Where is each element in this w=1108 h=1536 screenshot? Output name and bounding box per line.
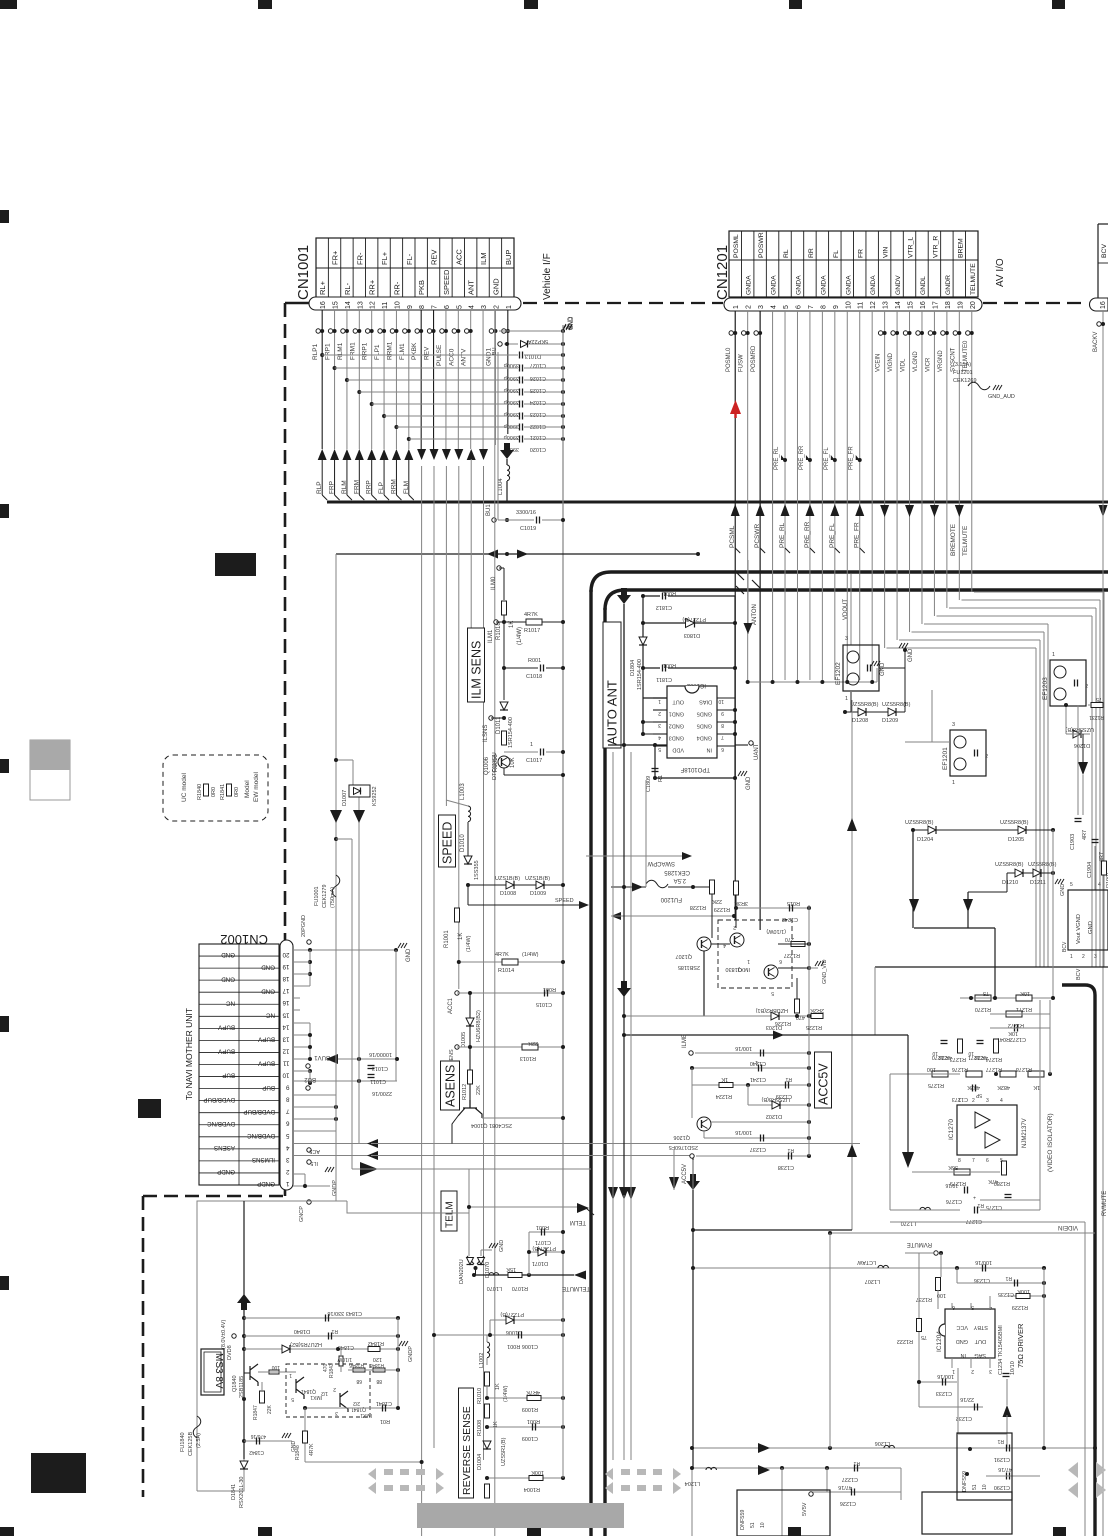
- telm top wire: [468, 1169, 470, 1256]
- svg-text:(8.0V±0.4V): (8.0V±0.4V): [221, 1320, 227, 1349]
- svg-text:5: 5: [658, 746, 661, 752]
- wire acc5 join: [380, 1142, 563, 1144]
- svg-text:D1206: D1206: [1074, 742, 1090, 748]
- svg-text:1: 1: [530, 742, 533, 748]
- svg-text:TELMUTE: TELMUTE: [970, 263, 977, 295]
- svg-text:7: 7: [721, 734, 724, 740]
- svg-text:VTR_R: VTR_R: [932, 236, 939, 258]
- svg-text:19: 19: [957, 301, 964, 309]
- svg-text:BREM: BREM: [957, 238, 964, 258]
- svg-text:R1280: R1280: [994, 1180, 1010, 1186]
- wire IL5 long: [371, 1155, 694, 1157]
- svg-text:TELMUTE: TELMUTE: [962, 525, 969, 556]
- svg-text:1K: 1K: [495, 1383, 501, 1390]
- svg-text:R1004: R1004: [524, 1486, 540, 1492]
- svg-text:1K: 1K: [1033, 1084, 1040, 1090]
- svg-text:IC1270: IC1270: [948, 1119, 955, 1140]
- wire y1035 acc: [624, 1034, 908, 1036]
- svg-text:C1017: C1017: [526, 758, 542, 764]
- svg-text:RLP1: RLP1: [312, 343, 319, 360]
- svg-text:FLM1: FLM1: [399, 343, 406, 360]
- svg-text:GNDA: GNDA: [746, 275, 753, 295]
- net DVD8: [232, 1334, 236, 1338]
- svg-text:NC: NC: [226, 999, 235, 1006]
- svg-text:R1225: R1225: [806, 1024, 822, 1030]
- svg-text:GND2: GND2: [669, 723, 684, 729]
- res R1272: [1006, 1011, 1022, 1017]
- svg-text:9: 9: [286, 1084, 290, 1091]
- CN1002 net stubs: [307, 940, 311, 944]
- svg-text:15K: 15K: [506, 1266, 516, 1272]
- svg-text:R1842: R1842: [368, 1340, 384, 1346]
- svg-text:4R7K: 4R7K: [526, 1389, 540, 1395]
- grayscale patch: [30, 740, 70, 800]
- gnd telm: [480, 1250, 482, 1256]
- svg-text:BREMOTE: BREMOTE: [950, 523, 957, 556]
- transistor Q1830b: [764, 965, 778, 979]
- section border dash horizontal y303 mid: [523, 302, 723, 304]
- CN1001 pin wires: [321, 310, 323, 449]
- res R1279: [954, 1169, 970, 1175]
- svg-text:4: 4: [723, 942, 726, 948]
- svg-text:SPEED: SPEED: [555, 898, 574, 904]
- svg-text:1: 1: [958, 1098, 961, 1104]
- svg-text:GND: GND: [261, 963, 275, 970]
- svg-text:RL: RL: [783, 249, 790, 258]
- svg-text:KS9252: KS9252: [372, 786, 378, 806]
- svg-text:GNDV: GNDV: [895, 275, 902, 295]
- registration block C: [31, 1453, 86, 1493]
- svg-text:6: 6: [986, 1158, 989, 1164]
- svg-text:C1237: C1237: [750, 1146, 766, 1152]
- svg-text:5: 5: [456, 305, 463, 309]
- svg-text:FRM: FRM: [353, 480, 360, 494]
- cap C1239: [785, 1082, 787, 1089]
- svg-text:1: 1: [733, 305, 740, 309]
- svg-text:C1272: C1272: [1010, 1036, 1026, 1042]
- svg-text:100/16: 100/16: [735, 1045, 752, 1051]
- svg-text:2SC4081 Q1004: 2SC4081 Q1004: [471, 1122, 512, 1128]
- capacitor C1019: [498, 519, 534, 521]
- svg-text:VDD: VDD: [672, 747, 684, 753]
- rail left x336: [335, 560, 337, 1201]
- svg-text:OUT: OUT: [672, 699, 684, 705]
- svg-text:BUP: BUP: [262, 1084, 275, 1091]
- svg-text:C1904: C1904: [1087, 862, 1093, 878]
- svg-text:UZS5R8(B): UZS5R8(B): [850, 702, 879, 708]
- svg-text:DVDB/BUP: DVDB/BUP: [243, 1108, 275, 1115]
- cap C1233: [919, 1381, 957, 1383]
- svg-text:FU1200: FU1200: [660, 896, 682, 902]
- svg-text:D1006: D1006: [506, 1329, 522, 1335]
- svg-text:UZS5R8(B): UZS5R8(B): [1065, 726, 1094, 732]
- svg-text:RR-: RR-: [392, 281, 401, 295]
- transistor Q1840: [250, 1364, 258, 1386]
- registration mark left y759: [0, 759, 9, 773]
- svg-text:GND_AUD: GND_AUD: [988, 394, 1015, 400]
- svg-text:HZU7R5(B2): HZU7R5(B2): [290, 1341, 322, 1347]
- diode D1211: [1033, 869, 1041, 877]
- svg-text:DAN202U: DAN202U: [459, 1259, 465, 1284]
- three down arrows: [608, 1187, 618, 1200]
- svg-text:D1205: D1205: [1008, 837, 1024, 843]
- svg-text:100K: 100K: [531, 1469, 544, 1475]
- diode D1205: [1018, 826, 1026, 834]
- svg-text:C1020: C1020: [530, 446, 546, 452]
- gnd row ic1802: [655, 777, 735, 779]
- res R1275: [932, 1071, 948, 1077]
- svg-text:(3.15A): (3.15A): [953, 362, 971, 368]
- registration mark left y210: [0, 210, 9, 223]
- svg-text:(2.5A): (2.5A): [196, 1433, 202, 1448]
- svg-text:2: 2: [286, 1168, 290, 1175]
- svg-text:1K: 1K: [458, 933, 464, 940]
- svg-text:FR+: FR+: [331, 250, 340, 265]
- connector CN1001 pin strip: [309, 297, 521, 310]
- svg-text:(1/4W): (1/4W): [466, 935, 472, 952]
- svg-text:R1847: R1847: [253, 1405, 259, 1420]
- svg-text:EW model: EW model: [253, 771, 260, 802]
- svg-text:RLM: RLM: [341, 480, 348, 494]
- ic IC1802 pins: [653, 697, 667, 699]
- svg-text:To NAVI MOTHER UNIT: To NAVI MOTHER UNIT: [184, 1008, 194, 1100]
- transistor Q1841b: [340, 1391, 348, 1412]
- net BU1: [497, 352, 499, 520]
- res R1844: [269, 1370, 279, 1374]
- diode D1208: [850, 692, 852, 712]
- label box AUTO ANT: [603, 622, 621, 748]
- svg-text:ACC5V: ACC5V: [682, 1164, 688, 1184]
- label box ASENS: [441, 1061, 460, 1110]
- svg-text:20PGND: 20PGND: [301, 915, 307, 937]
- svg-text:4R7K: 4R7K: [309, 1443, 315, 1456]
- svg-text:CEK125B: CEK125B: [188, 1432, 194, 1456]
- svg-text:3900p: 3900p: [504, 423, 519, 429]
- CN1201 net stubs: [729, 331, 733, 335]
- svg-text:16: 16: [282, 999, 289, 1006]
- svg-text:NC: NC: [266, 1011, 275, 1018]
- svg-text:0R0: 0R0: [211, 787, 217, 797]
- svg-text:C1275: C1275: [986, 1204, 1002, 1210]
- svg-text:IN: IN: [960, 1352, 966, 1358]
- svg-text:BUP: BUP: [222, 1072, 235, 1079]
- svg-text:6: 6: [444, 305, 451, 309]
- svg-text:MS3 8V: MS3 8V: [213, 1353, 224, 1389]
- cap C1840: [244, 1335, 398, 1337]
- svg-text:CEK1269: CEK1269: [953, 378, 977, 384]
- resistor R1017: [526, 619, 542, 625]
- svg-text:C1812: C1812: [656, 604, 672, 610]
- svg-text:16: 16: [1100, 301, 1107, 309]
- label box SPEED: [439, 815, 456, 867]
- svg-text:ILM SENS: ILM SENS: [470, 641, 484, 699]
- wire bottom telmute verts: [645, 780, 647, 887]
- net 5V5V: [809, 1492, 813, 1496]
- svg-text:3: 3: [758, 305, 765, 309]
- svg-text:GND: GND: [956, 1338, 968, 1344]
- svg-text:R1: R1: [787, 1147, 794, 1153]
- right connector pin strip: [1090, 298, 1108, 311]
- res R1009: [487, 1397, 563, 1399]
- svg-text:DVD8: DVD8: [227, 1345, 233, 1360]
- svg-text:VIDL: VIDL: [901, 358, 907, 372]
- svg-text:R1273: R1273: [950, 1056, 966, 1062]
- svg-text:2R2K: 2R2K: [810, 1007, 824, 1013]
- svg-text:RSX201L-30: RSX201L-30: [239, 1477, 245, 1509]
- cap C1290: [1006, 1473, 1008, 1480]
- svg-text:1: 1: [952, 780, 955, 786]
- svg-text:10: 10: [282, 1072, 289, 1079]
- right rail x735: [734, 596, 736, 778]
- svg-text:C1236: C1236: [974, 1277, 990, 1283]
- svg-text:R1222: R1222: [897, 1338, 913, 1344]
- svg-text:68: 68: [356, 1378, 362, 1384]
- svg-text:R1014: R1014: [498, 968, 514, 974]
- svg-text:ASENS: ASENS: [444, 1065, 458, 1107]
- svg-text:4: 4: [1098, 882, 1101, 888]
- capacitor C1809: [652, 768, 659, 770]
- svg-text:BU2: BU2: [304, 1076, 316, 1082]
- svg-text:22K: 22K: [528, 1040, 538, 1046]
- rail GND x563: [562, 560, 564, 1310]
- VDOUT wire: [850, 574, 852, 645]
- svg-text:7: 7: [972, 1158, 975, 1164]
- dashed box Q1841: [286, 1364, 370, 1417]
- svg-text:CN1002: CN1002: [220, 932, 268, 947]
- registration mark left y1016: [0, 1016, 9, 1032]
- vertical rail x852: [851, 700, 853, 1230]
- arrow ef1203 tail: [1082, 734, 1084, 762]
- res R1901: [1102, 861, 1107, 875]
- svg-text:REV: REV: [430, 250, 439, 265]
- svg-text:ACC: ACC: [454, 249, 463, 265]
- svg-text:PRE_FR: PRE_FR: [854, 522, 861, 548]
- cap C1271: [977, 1040, 984, 1042]
- svg-text:C1811: C1811: [656, 676, 672, 682]
- wire bcv line: [875, 966, 1108, 968]
- svg-text:L1004: L1004: [498, 478, 504, 495]
- transformer EF1203: [1050, 660, 1086, 706]
- svg-text:3: 3: [286, 1156, 290, 1163]
- svg-text:2: 2: [493, 305, 500, 309]
- svg-text:L1002: L1002: [479, 1353, 485, 1368]
- svg-text:FLM: FLM: [403, 481, 410, 494]
- svg-text:10: 10: [394, 301, 401, 309]
- inductor L1003: [445, 800, 447, 806]
- svg-text:PKB: PKB: [417, 280, 426, 295]
- svg-text:R1009: R1009: [522, 1406, 538, 1412]
- svg-text:Q1841: Q1841: [351, 1406, 366, 1412]
- arrow swac left: [611, 912, 621, 920]
- svg-text:RR+: RR+: [368, 279, 377, 295]
- svg-text:DNF559: DNF559: [740, 1510, 746, 1530]
- svg-text:Q1840: Q1840: [232, 1375, 238, 1392]
- svg-text:RVMUTE: RVMUTE: [907, 1241, 932, 1247]
- svg-text:VIGND: VIGND: [888, 352, 894, 372]
- svg-text:VCEIN: VCEIN: [876, 354, 882, 372]
- svg-text:CEK1279: CEK1279: [322, 884, 328, 908]
- svg-text:L1207: L1207: [865, 1278, 880, 1284]
- registration mark top x258: [258, 0, 272, 9]
- diode D1840 row: [244, 1348, 398, 1350]
- svg-text:GNCP: GNCP: [299, 1206, 305, 1222]
- res R1004: [487, 1477, 563, 1479]
- inductor L1270: [920, 1207, 930, 1210]
- svg-text:9: 9: [721, 710, 724, 716]
- inductor L1204: [706, 1467, 716, 1470]
- cap C1275: [1005, 1194, 1012, 1196]
- svg-text:1SS355: 1SS355: [474, 860, 480, 880]
- svg-text:56K: 56K: [948, 1164, 958, 1170]
- svg-text:17: 17: [282, 987, 289, 994]
- fuse FU1001: [332, 875, 340, 897]
- cap C1842: [244, 1440, 292, 1442]
- svg-text:R1001: R1001: [444, 930, 450, 948]
- cap C1276: [964, 1187, 966, 1194]
- svg-text:75: 75: [983, 990, 989, 996]
- svg-text:ACC0: ACC0: [448, 348, 455, 366]
- svg-text:470: 470: [323, 1363, 329, 1372]
- svg-text:BUP: BUP: [504, 250, 513, 265]
- svg-text:UZS1B(B): UZS1B(B): [525, 876, 550, 882]
- svg-text:GND: GND: [491, 278, 500, 295]
- CN1201 pin wires: [734, 311, 736, 920]
- svg-text:GND: GND: [406, 948, 412, 962]
- svg-text:IMX1: IMX1: [310, 1394, 322, 1400]
- svg-text:470/16: 470/16: [250, 1433, 266, 1439]
- svg-text:UZS5R8(B): UZS5R8(B): [1028, 862, 1057, 868]
- svg-text:12: 12: [870, 301, 877, 309]
- svg-text:IL5: IL5: [310, 1160, 318, 1166]
- svg-text:3: 3: [658, 722, 661, 728]
- wire ilm v: [503, 615, 505, 700]
- cap C1843: [244, 1317, 398, 1319]
- svg-text:1/10W: 1/10W: [337, 1356, 352, 1362]
- svg-text:1SR154-400: 1SR154-400: [508, 717, 514, 748]
- svg-text:6: 6: [286, 1120, 290, 1127]
- rail x563 low: [562, 1310, 564, 1478]
- svg-text:10K: 10K: [1008, 1030, 1018, 1036]
- svg-text:BU1: BU1: [486, 504, 492, 516]
- svg-text:R1010: R1010: [477, 1388, 483, 1404]
- svg-text:R1843: R1843: [329, 1363, 335, 1378]
- svg-text:14: 14: [345, 301, 352, 309]
- vert rails bottom: [829, 1233, 831, 1448]
- svg-text:FL+: FL+: [380, 251, 389, 265]
- svg-text:2: 2: [658, 710, 661, 716]
- svg-text:5: 5: [783, 305, 790, 309]
- cap C1006: [433, 1334, 563, 1336]
- svg-text:R1237: R1237: [916, 1296, 932, 1302]
- svg-text:Model: Model: [244, 780, 251, 798]
- svg-text:Q1207: Q1207: [675, 953, 692, 959]
- cap C1237 row: [704, 1137, 809, 1139]
- svg-text:RRP: RRP: [366, 480, 373, 494]
- svg-text:PKBK: PKBK: [411, 342, 418, 360]
- ic IC1204: [945, 1309, 995, 1358]
- svg-text:R1278: R1278: [1016, 1066, 1032, 1072]
- svg-text:16: 16: [320, 301, 327, 309]
- net TELMUTE wire: [474, 1274, 574, 1276]
- svg-text:R1224: R1224: [716, 1093, 732, 1099]
- svg-text:9: 9: [407, 305, 414, 309]
- svg-text:CEK1285: CEK1285: [664, 869, 690, 875]
- ms3 right rail: [397, 1318, 399, 1408]
- svg-text:51: 51: [972, 1484, 978, 1490]
- svg-text:UZS5R8(B): UZS5R8(B): [761, 1096, 790, 1102]
- svg-text:C1226: C1226: [840, 1500, 856, 1506]
- wire ef1201 in: [931, 690, 933, 742]
- svg-text:VICR: VICR: [925, 357, 931, 372]
- res R1224: [692, 1084, 809, 1086]
- svg-text:3: 3: [1094, 954, 1097, 960]
- svg-text:DVDB/NC: DVDB/NC: [247, 1132, 275, 1139]
- wire y554 ilm: [336, 553, 698, 555]
- svg-text:482K: 482K: [967, 1084, 980, 1090]
- svg-text:R015: R015: [787, 900, 800, 906]
- svg-text:R1840: R1840: [197, 784, 203, 800]
- svg-text:R001: R001: [528, 658, 541, 664]
- svg-text:10: 10: [760, 1522, 766, 1528]
- section border dash vertical x143: [142, 1196, 145, 1497]
- svg-text:R1228: R1228: [690, 904, 706, 910]
- svg-text:15: 15: [908, 301, 915, 309]
- svg-text:C1291: C1291: [994, 1456, 1010, 1462]
- rail PULSE x446: [445, 466, 447, 800]
- svg-text:HZU6R8(B2): HZU6R8(B2): [476, 1010, 482, 1042]
- svg-text:BUPV: BUPV: [257, 1060, 275, 1067]
- svg-text:11: 11: [283, 1059, 290, 1066]
- svg-text:2200/16: 2200/16: [372, 1090, 392, 1096]
- res R1237: [936, 1278, 941, 1291]
- section border dash horizontal y303 right: [983, 302, 1088, 304]
- resistor R1070: [508, 1273, 522, 1278]
- registration mark top x789: [789, 0, 802, 9]
- svg-text:14: 14: [282, 1023, 289, 1030]
- svg-text:GND4: GND4: [697, 735, 712, 741]
- diode pair D1008 D1009: [468, 884, 563, 886]
- svg-text:C1809: C1809: [646, 776, 652, 792]
- svg-text:C1270: C1270: [932, 1054, 948, 1060]
- svg-text:100/16: 100/16: [975, 1259, 992, 1265]
- svg-text:POSML: POSML: [733, 234, 740, 258]
- svg-text:BCV: BCV: [1101, 244, 1108, 258]
- svg-text:DTC114EU: DTC114EU: [492, 752, 498, 780]
- registration mark top-left: [0, 0, 17, 9]
- svg-text:5: 5: [1070, 882, 1073, 888]
- svg-text:12: 12: [370, 301, 377, 309]
- svg-text:8: 8: [419, 305, 426, 309]
- registration mark bottom x1053: [1053, 1527, 1066, 1536]
- cap C1009: [487, 1426, 563, 1428]
- svg-text:GNDP: GNDP: [257, 1180, 275, 1187]
- svg-text:TPO1018F: TPO1018F: [680, 766, 710, 772]
- svg-text:R1229: R1229: [714, 906, 730, 912]
- svg-text:2.5A: 2.5A: [674, 877, 686, 883]
- svg-text:GNDP: GNDP: [217, 1168, 235, 1175]
- svg-text:11: 11: [382, 302, 389, 309]
- svg-text:GNDA: GNDA: [795, 275, 802, 295]
- svg-text:TELM: TELM: [570, 1219, 586, 1225]
- registration block A: [215, 553, 256, 576]
- svg-text:6: 6: [795, 305, 802, 309]
- svg-text:GND5: GND5: [697, 723, 712, 729]
- svg-text:UZS5R8(B): UZS5R8(B): [1000, 820, 1029, 826]
- svg-text:C1277: C1277: [966, 1218, 982, 1224]
- res R1847: [260, 1391, 265, 1403]
- svg-text:(750mA): (750mA): [330, 887, 336, 908]
- svg-text:C1242: C1242: [782, 916, 798, 922]
